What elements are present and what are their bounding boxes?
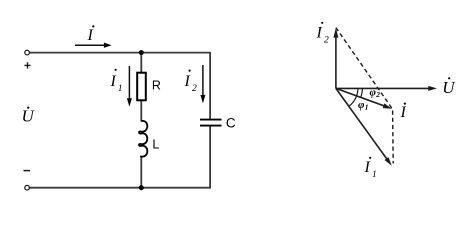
plus sign (24, 62, 30, 68)
wire: right branch lower (from capacitor) (209, 126, 211, 188)
wire: middle branch upper (to resistor) (140, 53, 142, 73)
svg-text:U: U (442, 78, 456, 97)
svg-text:I: I (184, 73, 191, 90)
inductor L (coil) (139, 121, 147, 158)
terminal: bottom-left open circle (25, 185, 30, 190)
wire: bottom horizontal (29, 187, 210, 189)
dashed construction line from I tip to I1 tip (392, 111, 395, 164)
capacitor C (plates) (200, 120, 222, 126)
angle arc phi2 (between U axis and I) (361, 88, 363, 97)
svg-text:1: 1 (372, 170, 377, 180)
minus sign (24, 170, 31, 172)
resistor R (rectangle) (137, 73, 146, 101)
angle arc phi1 (between U axis and I1) (349, 88, 358, 106)
svg-text:R: R (152, 78, 161, 92)
vector I1 (down-right) (336, 88, 392, 165)
wire: right branch upper (to capacitor) (209, 52, 211, 119)
label phi1 (358, 99, 369, 112)
node: bottom junction dot (139, 185, 144, 190)
label I2-dot (phasor) (316, 22, 330, 46)
svg-text:I: I (87, 27, 94, 44)
branch current arrow I2 (200, 65, 205, 103)
node: top junction dot (139, 50, 144, 55)
svg-text:I: I (110, 73, 117, 90)
vector I2 (vertical up) (333, 28, 338, 89)
source voltage label U-dot (22, 107, 36, 126)
wire: top horizontal (29, 52, 210, 54)
branch current arrow I1 (127, 66, 132, 107)
svg-text:1: 1 (118, 84, 123, 94)
svg-text:C: C (226, 115, 236, 130)
label U-dot (phasor) (442, 77, 456, 97)
svg-text:1: 1 (365, 103, 369, 112)
svg-text:2: 2 (192, 84, 197, 94)
dashed construction line from I2 tip to I tip (336, 28, 392, 109)
wire: middle branch between resistor and inductor (140, 100, 142, 122)
label I2-dot (184, 70, 198, 95)
svg-text:I: I (316, 25, 323, 42)
svg-text:2: 2 (324, 36, 329, 46)
label I-dot (phasor resultant) (400, 103, 407, 122)
label phi2 (370, 86, 381, 99)
label I-dot (top current) (87, 25, 95, 44)
vector U (horizontal right) (336, 86, 437, 91)
svg-text:L: L (152, 137, 159, 151)
vector I (resultant) (336, 88, 392, 108)
svg-text:2: 2 (375, 90, 380, 99)
label I1-dot (110, 69, 123, 94)
terminal: top-left open circle (25, 50, 30, 55)
svg-text:U: U (22, 107, 36, 126)
wire: middle branch lower (from inductor) (140, 156, 142, 188)
svg-text:I: I (400, 104, 407, 121)
svg-text:I: I (364, 159, 371, 176)
current arrow I (top wire) (75, 43, 112, 48)
label I1-dot (phasor) (364, 157, 377, 180)
